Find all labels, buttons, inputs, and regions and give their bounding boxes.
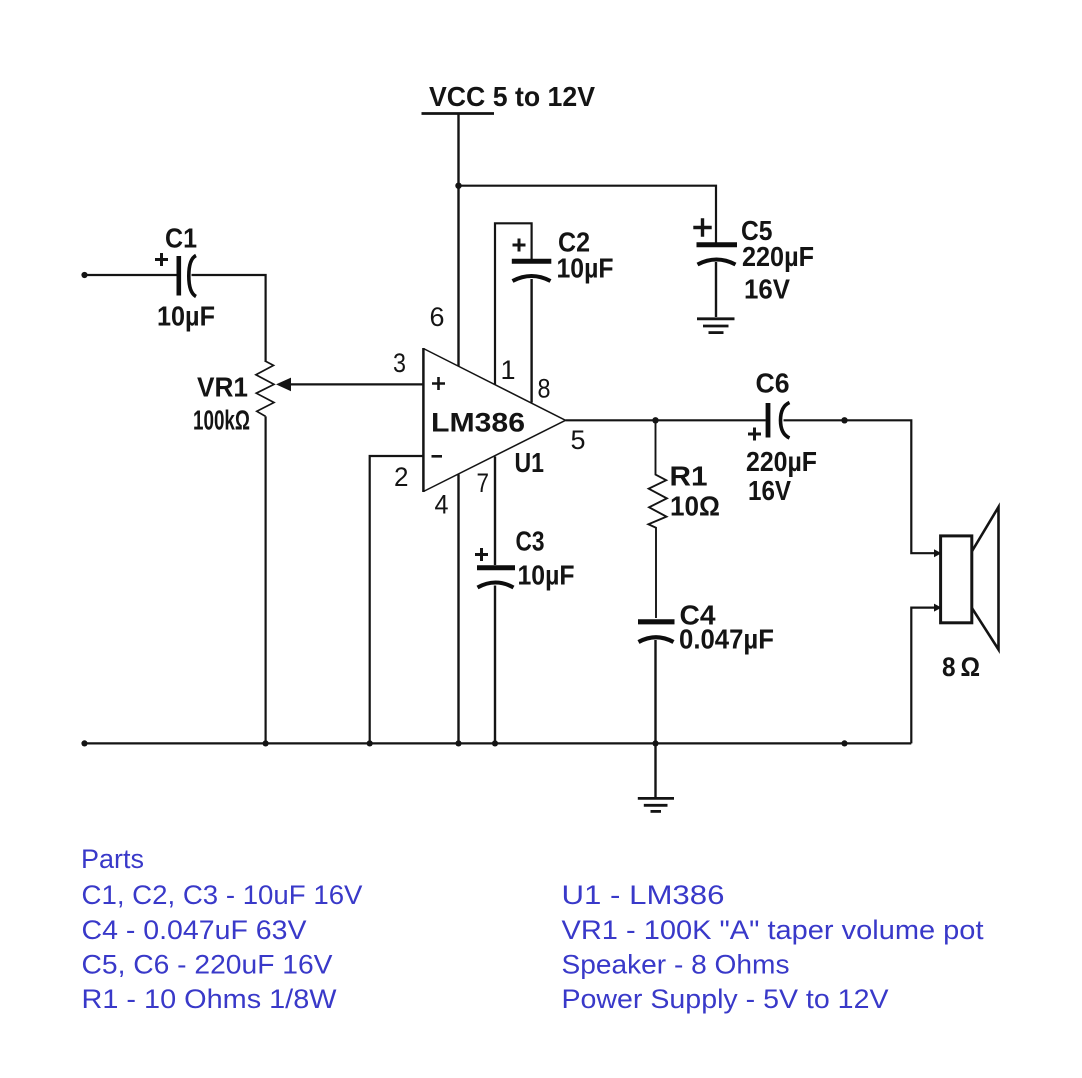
power VCC rail bar	[422, 112, 495, 115]
wire pin7 to C3	[494, 457, 496, 566]
label C6	[756, 368, 790, 399]
parts list line VR1	[562, 915, 985, 945]
svg-text:6: 6	[430, 302, 445, 332]
svg-text:R1: R1	[670, 461, 708, 492]
label speaker 8 ohms	[942, 652, 980, 682]
label pin 4	[435, 490, 449, 520]
svg-text:VCC 5 to 12V: VCC 5 to 12V	[429, 81, 596, 112]
capacitor C2	[512, 261, 552, 402]
parts list line C5 C6	[82, 949, 333, 979]
parts list line U1	[562, 880, 725, 910]
label C3 value 10uF	[518, 560, 575, 591]
svg-text:VR1: VR1	[197, 372, 248, 403]
svg-text:100kΩ: 100kΩ	[193, 405, 250, 436]
label C1 value 10uF	[157, 301, 215, 332]
svg-text:16V: 16V	[744, 274, 791, 305]
wire pin4 to rail	[457, 474, 459, 743]
wire C6 to speaker	[784, 420, 941, 553]
label C6 plus	[748, 428, 761, 441]
potentiometer VR1	[256, 361, 274, 416]
wire speaker bottom to rail	[911, 608, 940, 744]
capacitor C6	[768, 403, 790, 439]
label pin 5	[571, 425, 586, 455]
label C5	[741, 215, 773, 246]
capacitor C3	[477, 568, 515, 744]
svg-text:5: 5	[571, 425, 586, 455]
label C1	[165, 223, 197, 254]
parts list line power supply	[562, 984, 889, 1014]
svg-text:Speaker - 8 Ohms: Speaker - 8 Ohms	[562, 949, 790, 979]
svg-text:2: 2	[394, 462, 409, 492]
node VCC junction	[455, 183, 461, 189]
label C6 value 16V	[748, 475, 792, 506]
label LM386	[431, 408, 525, 438]
svg-text:C1: C1	[165, 223, 197, 254]
speaker	[934, 507, 999, 650]
svg-text:C4 - 0.047uF 63V: C4 - 0.047uF 63V	[82, 915, 307, 945]
label pin 3	[393, 348, 406, 378]
svg-text:16V: 16V	[748, 475, 792, 506]
node rail ground junction	[652, 740, 658, 746]
svg-text:C3: C3	[516, 526, 545, 557]
svg-text:10Ω: 10Ω	[670, 491, 720, 522]
svg-text:3: 3	[393, 348, 406, 378]
op-amp plus input mark	[432, 377, 445, 390]
wire pin2 feedback	[370, 456, 424, 743]
label C2 plus	[513, 239, 526, 252]
node rail pin2 junction	[367, 740, 373, 746]
node output dot right of C6	[841, 417, 847, 423]
label pin 6	[430, 302, 445, 332]
svg-text:U1: U1	[515, 447, 545, 478]
svg-text:U1 - LM386: U1 - LM386	[562, 880, 725, 910]
parts list line C1 C2 C3	[82, 880, 363, 910]
parts list line R1	[82, 984, 338, 1014]
node rail left end	[81, 740, 87, 746]
wire output pin5	[566, 419, 766, 421]
label pin 2	[394, 462, 409, 492]
svg-text:4: 4	[435, 490, 449, 520]
label pin 8	[538, 374, 551, 404]
parts list line C4	[82, 915, 307, 945]
label C5 value 220uF	[742, 241, 814, 272]
svg-text:220µF: 220µF	[742, 241, 814, 272]
svg-text:C1, C2, C3 - 10uF 16V: C1, C2, C3 - 10uF 16V	[82, 880, 363, 910]
label C3	[516, 526, 545, 557]
label C2 value 10uF	[557, 253, 614, 284]
op-amp minus input mark	[432, 455, 443, 458]
svg-text:LM386: LM386	[431, 408, 525, 438]
label C5 plus	[693, 218, 711, 236]
node input terminal dot	[81, 272, 87, 278]
label C3 plus	[475, 548, 488, 561]
label VCC 5 to 12V	[429, 81, 596, 112]
svg-text:C6: C6	[756, 368, 790, 399]
node rail C3 junction	[492, 740, 498, 746]
label R1	[670, 461, 708, 492]
ground main	[638, 743, 674, 811]
VR1 wiper arrow	[276, 378, 423, 392]
svg-text:7: 7	[477, 468, 490, 498]
ground C5	[697, 319, 735, 333]
svg-text:R1 - 10 Ohms 1/8W: R1 - 10 Ohms 1/8W	[82, 984, 338, 1014]
svg-text:220µF: 220µF	[746, 446, 817, 477]
wire bottom ground rail	[84, 742, 911, 744]
label R1 value 10ohm	[670, 491, 720, 522]
parts list line speaker	[562, 949, 790, 979]
wire C2 bypass pin1 up and over	[495, 223, 532, 384]
svg-text:10µF: 10µF	[518, 560, 575, 591]
capacitor C4	[638, 622, 675, 744]
svg-text:Power Supply - 5V to 12V: Power Supply - 5V to 12V	[562, 984, 889, 1014]
wire C1 to VR1 corner	[192, 275, 266, 362]
capacitor C5	[697, 245, 738, 317]
label C4 value	[679, 624, 774, 655]
label C5 value 16V	[744, 274, 791, 305]
wire input to C1	[85, 274, 178, 276]
svg-text:0.047µF: 0.047µF	[679, 624, 774, 655]
svg-text:8 Ω: 8 Ω	[942, 652, 980, 682]
svg-text:8: 8	[538, 374, 551, 404]
svg-text:C5, C6 - 220uF 16V: C5, C6 - 220uF 16V	[82, 949, 333, 979]
svg-text:10µF: 10µF	[557, 253, 614, 284]
label C4	[680, 600, 717, 631]
svg-text:1: 1	[501, 355, 516, 385]
label C2	[558, 227, 590, 258]
label pin 1	[501, 355, 516, 385]
svg-text:Parts: Parts	[81, 844, 144, 874]
node rail speaker junction	[841, 740, 847, 746]
svg-text:VR1 - 100K "A" taper volume po: VR1 - 100K "A" taper volume pot	[562, 915, 985, 945]
capacitor C1	[179, 256, 196, 297]
op-amp U1	[423, 348, 565, 492]
node rail VR1 junction	[263, 740, 269, 746]
node output junction R1	[652, 417, 658, 423]
label VR1 value 100k	[193, 405, 250, 436]
wire VR1 bottom to rail	[265, 416, 267, 743]
label C6 value 220uF	[746, 446, 817, 477]
label pin 7	[477, 468, 490, 498]
wire VCC junction to C5	[459, 186, 717, 243]
resistor R1	[648, 420, 667, 618]
parts list heading	[81, 844, 144, 874]
wire VCC down pin6	[457, 115, 459, 367]
node rail pin4 junction	[455, 740, 461, 746]
label U1	[515, 447, 545, 478]
svg-text:10µF: 10µF	[157, 301, 215, 332]
label VR1	[197, 372, 248, 403]
label C1 plus	[155, 253, 168, 266]
